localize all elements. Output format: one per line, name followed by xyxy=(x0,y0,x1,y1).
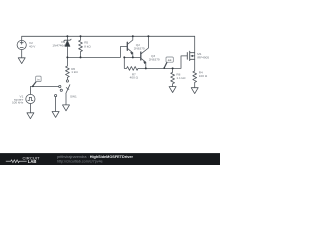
wire Q2 base xyxy=(124,56,140,58)
wire V1 to ground xyxy=(29,104,31,113)
flag in box xyxy=(36,76,41,82)
svg-text:out: out xyxy=(168,58,172,62)
switch SW1 lever xyxy=(66,85,70,94)
ground (R8) xyxy=(169,87,176,93)
svg-text:100 Ω: 100 Ω xyxy=(199,74,208,78)
flag in stem xyxy=(33,82,36,86)
wire V1 to node xyxy=(30,87,58,95)
logo resistor zigzag xyxy=(6,160,27,163)
wire top rail xyxy=(22,36,195,40)
svg-text:100 kHz: 100 kHz xyxy=(12,101,24,105)
resistor R7 xyxy=(124,57,146,70)
flag out box xyxy=(166,57,173,62)
resistor R8 xyxy=(171,68,175,86)
svg-text:SW1: SW1 xyxy=(70,95,77,99)
voltage source V1 xyxy=(26,94,35,103)
footer bar xyxy=(0,153,220,165)
wire switch common to ground xyxy=(65,94,67,105)
svg-text:8 kΩ: 8 kΩ xyxy=(84,45,91,49)
ground (V1) xyxy=(27,113,34,119)
svg-text:2N6379: 2N6379 xyxy=(149,58,160,62)
resistor R5 xyxy=(79,36,83,57)
svg-text:1.1 kΩ: 1.1 kΩ xyxy=(176,76,186,80)
svg-text:LAB: LAB xyxy=(28,159,37,164)
ground (V2) xyxy=(18,58,25,64)
svg-text:IRF4905: IRF4905 xyxy=(197,55,209,59)
svg-text:400 Ω: 400 Ω xyxy=(130,76,139,80)
transistor Q2 xyxy=(126,42,128,50)
mosfet M1 xyxy=(186,53,188,60)
ground (SW1) xyxy=(63,105,70,111)
resistor R4 xyxy=(193,59,197,87)
svg-text:http://circuitlab.com/c/7pv4e: http://circuitlab.com/c/7pv4e xyxy=(57,159,103,163)
junction dots xyxy=(32,35,174,87)
transistor Q3 xyxy=(140,52,142,60)
resistor R6 xyxy=(66,57,70,80)
svg-text:1 kΩ: 1 kΩ xyxy=(71,70,78,74)
switch SW1 terminals xyxy=(66,80,68,82)
svg-text:2N6379: 2N6379 xyxy=(134,47,145,51)
svg-text:40 V: 40 V xyxy=(29,44,36,48)
voltage source V2 xyxy=(17,40,26,49)
wire gate node xyxy=(146,56,187,69)
flag out stem xyxy=(164,62,167,68)
ground (R4) xyxy=(191,88,198,94)
zener diode D2 xyxy=(66,36,68,40)
ground (throw) xyxy=(52,112,59,118)
footer bar top edge xyxy=(0,152,220,155)
wire V2 to ground xyxy=(21,50,23,58)
svg-text:1N4746A: 1N4746A xyxy=(52,44,66,48)
wire throw to ground xyxy=(55,97,57,112)
wire lower rail xyxy=(67,47,126,58)
